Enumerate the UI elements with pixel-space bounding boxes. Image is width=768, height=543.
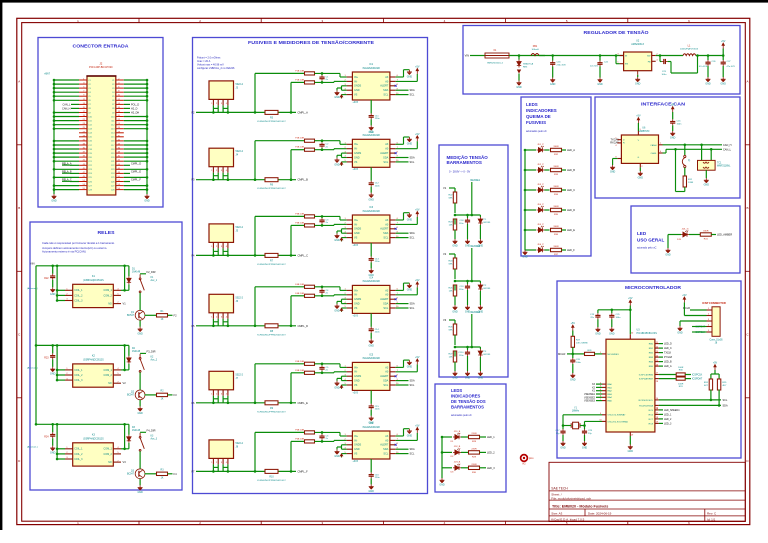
INA226 IC1 pin right 9: [390, 89, 396, 91]
svg-text:C8: C8: [88, 108, 90, 110]
svg-text:47u 6V3: 47u 6V3: [727, 66, 736, 68]
common-mode choke TC1 body: [698, 160, 716, 170]
svg-text:B: B: [18, 206, 20, 210]
svg-text:COM_1: COM_1: [104, 448, 113, 451]
svg-text:CMPL_E: CMPL_E: [298, 401, 309, 405]
junction right bus row 17: [146, 144, 149, 147]
svg-text:J2: J2: [99, 62, 102, 66]
wire resistor to net label: [562, 209, 567, 211]
svg-text:SCL: SCL: [383, 453, 388, 456]
wire INA A3 to ground: [396, 289, 404, 291]
svg-text:Aux_3: Aux_3: [151, 438, 158, 441]
regulator U2 pin IN: [620, 55, 624, 57]
INA226 IC6 pin left 4: [347, 448, 353, 450]
wire sense+ vertical: [254, 73, 256, 112]
wire sense+ horizontal: [255, 72, 304, 74]
junction right bus row 23: [146, 168, 149, 171]
INA226 IC6 pin right 7: [390, 439, 396, 441]
svg-text:C14: C14: [111, 133, 114, 135]
svg-text:(Acionam.): (Acionam.): [27, 445, 38, 448]
junction filter cap bottom: [321, 224, 324, 227]
svg-text:Rev: C: Rev: C: [707, 511, 717, 515]
resistor R26 68K: [453, 324, 456, 335]
INA226 IC5 pin right 8: [390, 375, 396, 377]
junction right bus row 12: [146, 123, 149, 126]
MCU pin SDA: [655, 404, 659, 406]
INA226 IC2 pin right 9: [390, 157, 396, 159]
ground decoupling C13: [369, 268, 374, 273]
MCU pin right TX118: [655, 352, 659, 354]
wire H2_D stub: [124, 107, 130, 109]
wire divider mid2: [454, 351, 456, 357]
svg-text:+BAT: +BAT: [44, 73, 50, 76]
svg-text:SCL: SCL: [383, 307, 388, 310]
junction left bus row 16: [53, 140, 56, 143]
junction LED tensao bus 2: [441, 451, 444, 454]
decoupling capacitor C15 220n: [369, 404, 374, 410]
svg-text:GND: GND: [704, 184, 710, 187]
junction right bus row 4: [146, 91, 149, 94]
ground zener: [478, 305, 483, 310]
svg-text:COIL_3: COIL_3: [74, 458, 83, 461]
svg-text:CANL: CANL: [651, 152, 658, 155]
wire fuse pin 4 down: [227, 396, 229, 403]
svg-text:INTERFACE CAN: INTERFACE CAN: [641, 102, 685, 107]
junction LED tensao bus 1: [441, 436, 444, 439]
connector J2 pin right 40: [116, 156, 124, 158]
ICSP J8 pin 2: [707, 315, 713, 317]
wire MCU to TX118: [659, 352, 663, 354]
junction EN tie: [615, 54, 618, 57]
wire resistor to net label: [562, 229, 567, 231]
INA226 IC6 pin left 5: [347, 453, 353, 455]
block box LEDS INDICADORES QUEIMA: [521, 97, 591, 256]
filter resistor R2B 10R: [305, 148, 315, 151]
title block row line 4: [549, 508, 745, 510]
wire divider tap: [455, 214, 480, 216]
INA226 IC5 pin right 6: [390, 366, 396, 368]
svg-text:100R: 100R: [678, 367, 684, 369]
wire fuse pin 3 down: [222, 105, 224, 112]
junction relay K3 pin 1: [56, 448, 59, 451]
INA226 IC6 pin right 8: [390, 444, 396, 446]
svg-text:SDA: SDA: [383, 303, 388, 306]
svg-text:ALERT: ALERT: [380, 85, 388, 88]
no-connect ALERT: [395, 85, 397, 87]
wire sense tap up: [471, 314, 473, 347]
wire relay K1 diode top: [128, 266, 130, 277]
wire to C27: [722, 56, 724, 61]
TVS diode D13 second element: [517, 70, 521, 74]
svg-text:GND: GND: [334, 386, 340, 389]
svg-text:(G5RF4A)DC0512S: (G5RF4A)DC0512S: [83, 359, 104, 362]
connector J2 pin left 23: [79, 124, 87, 126]
svg-text:F2B 10R: F2B 10R: [295, 138, 304, 140]
junction filter cap top: [321, 286, 324, 289]
svg-text:GND: GND: [635, 83, 641, 86]
junction filter cap bottom: [321, 372, 324, 375]
connector J2 pin right 32: [116, 140, 124, 142]
resistor R23 14K: [453, 219, 456, 230]
wire SDA: [396, 380, 409, 382]
wire J2 right pin row 5 to bus: [124, 95, 147, 97]
ground decoupling C12: [369, 193, 374, 198]
relay K3 pin COM_2: [113, 453, 121, 455]
wire divider top: [454, 320, 456, 324]
wire CMPL_E to pin: [124, 172, 130, 174]
connector J2 pin right 28: [116, 132, 124, 134]
block box CONECTOR ENTRADA: [38, 38, 163, 208]
svg-text:CMPL_B: CMPL_B: [298, 178, 309, 182]
junction left bus row 1: [53, 79, 56, 82]
wire filter A to INA IN+: [315, 72, 341, 74]
junction left bus row 20: [53, 156, 56, 159]
junction fuse pin1: [212, 470, 215, 473]
wire to relay K1 pin 3: [57, 300, 65, 302]
svg-text:GND: GND: [354, 380, 360, 383]
wire INA to decoupling cap: [370, 100, 372, 113]
LED D33: [537, 186, 545, 192]
ground LED bus: [523, 250, 528, 255]
svg-text:IN-: IN-: [354, 439, 358, 442]
capacitor C110 110n: [465, 350, 470, 356]
wire divider top: [454, 188, 456, 192]
power +5V MCLR: [572, 325, 574, 330]
current sense IC3 INA226: [352, 215, 390, 243]
INA226 IC6 pin right 10: [390, 453, 396, 455]
title block date divider: [584, 509, 586, 516]
junction C25: [611, 309, 614, 312]
wire INA A3 to ground: [396, 76, 404, 78]
junction filter cap: [466, 214, 469, 217]
svg-text:IN+: IN+: [354, 366, 359, 369]
junction right bus row 20: [146, 156, 149, 159]
svg-text:V2: V2: [443, 252, 447, 256]
INA226 IC3 pin left 5: [347, 237, 353, 239]
wire ICSPCLK to ICSP: [692, 331, 707, 333]
ground transistor Q2: [138, 406, 143, 411]
relay K1 pin NO: [113, 303, 121, 305]
svg-text:Date: 2024-06-19: Date: 2024-06-19: [588, 511, 612, 515]
svg-text:IC4: IC4: [369, 277, 373, 280]
svg-text:C5: C5: [88, 96, 90, 98]
wire C23 left leg: [659, 58, 661, 62]
wire relay K3 coil feed: [56, 424, 58, 459]
svg-text:A: A: [18, 80, 20, 84]
wire fuse pins 1-2 link: [213, 398, 218, 400]
block box LED USO GERAL: [631, 206, 740, 273]
wire C19 to ground: [597, 319, 599, 327]
junction filter cap top: [321, 363, 324, 366]
fuse holder F5 pin 1: [212, 390, 214, 396]
wire sense+ horizontal: [255, 215, 304, 217]
svg-text:+5V: +5V: [721, 40, 726, 43]
power +3V3 flag: [340, 385, 342, 389]
svg-text:C1: C1: [112, 80, 114, 82]
junction relay K2 pin 2: [56, 374, 59, 377]
relay K3 pin COM_1: [113, 448, 121, 450]
wire J2 right pin row 28 to bus: [124, 189, 147, 191]
junction fuse pin1: [212, 178, 215, 181]
svg-text:BARRAMENTOS: BARRAMENTOS: [451, 405, 484, 410]
svg-text:+5V: +5V: [636, 115, 641, 118]
resistor R3 base: [157, 472, 168, 475]
MCU pin VDD: [629, 334, 631, 339]
svg-text:GND: GND: [439, 484, 445, 487]
wire VSENSE1 to MCU: [596, 393, 602, 395]
svg-text:IN+: IN+: [354, 435, 359, 438]
wire transistor emitter to ground: [139, 400, 141, 407]
svg-text:GND: GND: [407, 366, 413, 369]
filter capacitor C2 2n: [319, 142, 324, 148]
wire divider to ground: [454, 296, 456, 305]
svg-text:BC547: BC547: [127, 473, 135, 475]
svg-text:GND: GND: [334, 309, 340, 312]
wire J2 left pin row 1 to bus: [54, 79, 79, 81]
svg-text:F3B 10R: F3B 10R: [295, 213, 304, 215]
INA226 IC6 pin left 2: [347, 439, 353, 441]
svg-text:CMPL_F: CMPL_F: [298, 469, 309, 473]
svg-text:SDA: SDA: [410, 157, 415, 160]
current sense IC2 INA226: [352, 139, 390, 167]
wire MCLR label: [567, 353, 573, 355]
wire SDA: [396, 448, 409, 450]
INA226 IC3 pin right 9: [390, 232, 396, 234]
wire J2 right pin row 3 to bus: [124, 87, 147, 89]
svg-text:C25: C25: [111, 177, 114, 179]
diode D1 1N4148: [127, 276, 131, 284]
junction filter cap bottom: [321, 81, 324, 84]
wire resistor to net: [711, 234, 716, 236]
wire ICSP pin3 to ground: [680, 320, 707, 322]
wire fuse pin 4 down: [227, 319, 229, 326]
junction left bus row 19: [53, 152, 56, 155]
svg-text:JD1_B: JD1_B: [454, 431, 461, 433]
fuse holder F3: [209, 224, 234, 243]
ground zener: [478, 239, 483, 244]
wire sense+ vertical: [254, 364, 256, 403]
wire relay K2 coil feed: [56, 345, 58, 380]
wire left bus of J2: [53, 80, 55, 194]
svg-text:F3B 10R: F3B 10R: [295, 222, 304, 224]
svg-text:GND: GND: [369, 344, 375, 347]
svg-text:GND: GND: [369, 490, 375, 493]
wire bus to LED_D: [525, 209, 536, 211]
MCU pin right low LED_3: [655, 422, 659, 424]
svg-text:V1: V1: [123, 302, 127, 306]
svg-text:C2: C2: [112, 84, 114, 86]
wire cap to ground: [370, 410, 372, 416]
svg-text:100mH: 100mH: [531, 49, 538, 51]
svg-text:C21: C21: [111, 161, 114, 163]
MCU pin right LED_A: [655, 365, 659, 367]
svg-text:JD1_P: JD1_P: [537, 144, 544, 146]
ground INA IC1 address: [407, 70, 412, 75]
svg-text:C26: C26: [111, 181, 114, 183]
filter capacitor C1 2n: [319, 75, 324, 81]
junction right bus row 3: [146, 87, 149, 90]
wire divider mid2: [454, 285, 456, 291]
wire INA to decoupling cap: [370, 167, 372, 180]
ground C17: [561, 441, 566, 446]
connector J2 pin left 35: [79, 148, 87, 150]
ground decoupling C14: [369, 339, 374, 344]
wire fuse pin 3 down: [222, 464, 224, 471]
wire C15 to ground: [672, 125, 674, 131]
wire SCL: [396, 161, 409, 163]
wire sense- horizontal: [291, 295, 304, 297]
relay K1 pin COM_1: [113, 289, 121, 291]
wire divider to ground: [454, 230, 456, 239]
ground CAN RS: [610, 165, 615, 170]
capacitor C22 22u: [597, 61, 602, 67]
svg-text:WMF2116NL: WMF2116NL: [717, 166, 731, 168]
wire filter cap top: [321, 287, 323, 289]
wire RELA_A to pin: [62, 164, 70, 166]
svg-text:GND: GND: [550, 83, 556, 86]
junction relay K1 coil: [56, 265, 59, 268]
INA226 IC5 pin left 1: [347, 366, 353, 368]
wire filter A to INA IN+: [315, 363, 341, 365]
wire to relay K2 snubber: [52, 345, 54, 353]
svg-text:GND: GND: [354, 303, 360, 306]
fuse holder F1 pin 3: [222, 99, 224, 105]
wire R31 to label: [685, 378, 691, 380]
wire sense- vertical: [290, 82, 292, 112]
svg-text:BZV85: BZV85: [484, 354, 491, 356]
connector J2 pin right 4: [116, 83, 124, 85]
wire CANH: [663, 144, 723, 146]
resistor R25 4K7: [717, 379, 720, 390]
wire relay K2 diode top: [128, 345, 130, 356]
svg-text:Acionamento externo é via PC(C: Acionamento externo é via PC(CAN): [42, 250, 86, 254]
wire crystal left leg: [563, 425, 571, 427]
wire filter B to INA IN-: [315, 295, 335, 297]
wire SCL: [396, 237, 409, 239]
svg-text:PIC18F25K80-I/SS: PIC18F25K80-I/SS: [637, 332, 658, 335]
wire relay K1 diode bottom: [128, 284, 130, 290]
ground divider R: [453, 305, 458, 310]
svg-text:F5B 10R: F5B 10R: [295, 370, 304, 372]
fuse holder F4 pin 1: [212, 313, 214, 319]
wire fuse pins 3-4 link: [223, 321, 228, 323]
wire sense+ horizontal: [255, 140, 304, 142]
svg-text:IC1: IC1: [369, 63, 373, 66]
wire fuse pin 1 down: [212, 173, 214, 180]
svg-text:GND: GND: [50, 293, 56, 296]
junction relay K1 pin 2: [56, 294, 59, 297]
svg-text:GND: GND: [610, 171, 616, 174]
junction right bus row 1: [146, 79, 149, 82]
wire divider top: [454, 254, 456, 258]
wire filter cap bottom: [321, 224, 323, 226]
connector J2 pin left 15: [79, 107, 87, 109]
svg-text:GND: GND: [595, 333, 601, 336]
wire VSS to ground: [629, 436, 631, 445]
svg-text:VS: VS: [354, 384, 358, 387]
svg-text:LED_2: LED_2: [664, 418, 672, 421]
svg-text:330R: 330R: [553, 206, 559, 208]
wire relay K2 COM to bus: [121, 369, 125, 371]
wire J2 right pin row 17 to bus: [124, 144, 147, 146]
decoupling capacitor C11 220n: [369, 113, 374, 119]
wire snubber to ground: [52, 359, 54, 367]
svg-text:CMPL_D: CMPL_D: [131, 162, 141, 165]
svg-text:MEDIÇÃO TENSÃO: MEDIÇÃO TENSÃO: [447, 154, 489, 160]
wire J2 left pin row 3 to bus: [54, 87, 79, 89]
svg-text:C17: C17: [111, 145, 114, 147]
INA226 IC2 pin right 6: [390, 143, 396, 145]
svg-text:120R: 120R: [688, 182, 694, 184]
wire V1 to divider: [449, 187, 455, 189]
svg-text:5MF(250V)20+2: 5MF(250V)20+2: [487, 63, 504, 65]
svg-text:F4B 10R: F4B 10R: [295, 293, 304, 295]
junction fuse pin4: [227, 325, 230, 328]
svg-text:BC547: BC547: [127, 394, 135, 396]
svg-text:330R: 330R: [553, 146, 559, 148]
wire INA grounds: [342, 298, 347, 300]
capacitor C19 22u: [595, 313, 600, 319]
svg-text:IN-: IN-: [354, 294, 358, 297]
wire C22 to ground: [599, 67, 601, 78]
wire divider to ground: [454, 362, 456, 371]
wire bus to LED_C: [525, 189, 536, 191]
wire fuse pin 4 down: [227, 105, 229, 112]
ground under J2 left bus: [52, 194, 57, 199]
decoupling capacitor C14 220n: [369, 327, 374, 333]
svg-text:Aux_2: Aux_2: [151, 359, 158, 362]
wire sense- vertical: [290, 225, 292, 255]
wire INA grounds: [342, 375, 347, 377]
ground transistor Q3: [138, 485, 143, 490]
ground C25: [609, 327, 614, 332]
svg-text:QUEIMA DE: QUEIMA DE: [526, 114, 551, 119]
wire sense- vertical: [290, 296, 292, 326]
INA226 IC6 pin right 9: [390, 448, 396, 450]
resistor R22 68K: [453, 192, 456, 203]
svg-text:10K 21KRB: 10K 21KRB: [576, 343, 588, 345]
svg-text:LED_AMBER: LED_AMBER: [717, 234, 732, 237]
svg-text:GND: GND: [522, 256, 528, 259]
junction term CANL: [674, 148, 677, 151]
capacitor C18 110n: [465, 218, 470, 224]
svg-text:GND: GND: [334, 239, 340, 242]
wire INA to decoupling cap: [370, 390, 372, 403]
wire L1 to output caps: [696, 55, 723, 57]
connector J2 pin right 48: [116, 172, 124, 174]
wire R12 to CANL: [684, 187, 686, 192]
choke TC1 windings: [703, 162, 709, 168]
MCU pin right low LED_2: [655, 418, 659, 420]
connector J2 pin left 31: [79, 140, 87, 142]
relay K1 contact switch: [139, 274, 144, 292]
wire bus to LED_B: [525, 169, 536, 171]
ground C19: [595, 327, 600, 332]
ground regulator U2: [635, 77, 640, 82]
junction diode to COM: [123, 369, 126, 372]
MCU pin OSC2: [602, 420, 606, 422]
wire filter A to INA IN+: [315, 140, 341, 142]
resistor R24 68K: [453, 258, 456, 269]
svg-text:C28: C28: [111, 189, 114, 191]
wire base resistor to net: [168, 473, 173, 475]
wire J2 left pin row 25 to bus: [54, 176, 79, 178]
connector J2 pin right 36: [116, 148, 124, 150]
wire to TVS diode: [518, 56, 520, 60]
svg-text:C15: C15: [88, 137, 91, 139]
junction relay K1 pin 3: [56, 299, 59, 302]
wire CANL: [663, 152, 667, 154]
